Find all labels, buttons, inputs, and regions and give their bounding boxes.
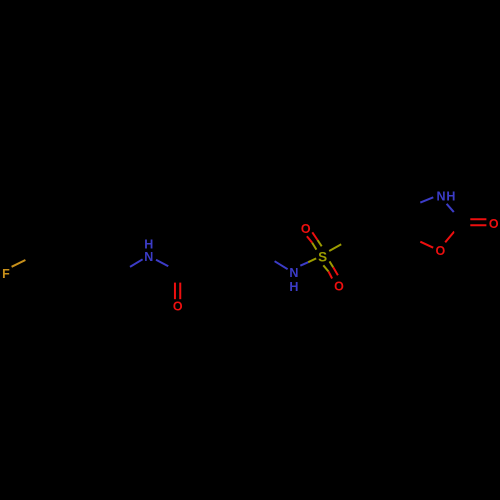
bond C2-O black half <box>455 223 463 233</box>
right benzene ring (benzoxazolone benzo ring, black) <box>351 191 408 257</box>
bond C7a-O black half <box>409 240 420 244</box>
svg-text:O: O <box>436 244 446 258</box>
propyl chain bonds black <box>178 256 207 273</box>
bond N-C3a blue half <box>420 197 433 202</box>
S=O bottom double bond olive halves <box>323 265 328 271</box>
svg-text:O: O <box>173 300 183 314</box>
svg-text:N: N <box>144 250 153 264</box>
bond N-C blue half (sulfonamide N to chain) <box>275 261 288 269</box>
bond C6-S black half <box>341 240 351 244</box>
svg-text:S: S <box>318 249 327 264</box>
S=O top double bond red halves <box>312 232 317 240</box>
C2=O exocyclic double bond black halves <box>464 218 472 220</box>
svg-text:N: N <box>289 266 298 280</box>
svg-text:O: O <box>489 217 499 231</box>
bond O-C2 red half (ring O) <box>445 232 454 243</box>
svg-text:O: O <box>301 222 311 236</box>
bond C2-N black half <box>454 212 463 222</box>
svg-text:H: H <box>289 280 298 294</box>
bond C(=O)-N black half <box>168 267 178 273</box>
bond O-C7a red half <box>420 242 433 248</box>
svg-text:N: N <box>436 190 445 204</box>
bond N-C(=O) blue half <box>156 260 168 267</box>
bond N-CH2 blue half <box>130 259 143 267</box>
S=O top double bond olive halves <box>318 240 322 246</box>
left benzene ring (3-fluorophenyl, carbon bonds, black) <box>34 207 91 273</box>
svg-text:H: H <box>446 190 455 204</box>
wire bond C5-F black half <box>25 257 34 262</box>
bond N-C2 blue half <box>447 204 454 213</box>
bond S-C6 olive half <box>329 244 341 251</box>
svg-text:F: F <box>2 267 10 281</box>
bond C3a-N black half <box>409 203 420 207</box>
carbonyl C=O double bond red halves <box>174 283 176 300</box>
C2=O exocyclic double bond red halves <box>470 218 486 220</box>
bond F-C5 gold half <box>12 260 26 267</box>
bond S-N olive half <box>308 258 316 262</box>
S=O bottom double bond red halves <box>329 272 333 279</box>
bond N-S blue half <box>300 262 308 266</box>
carbonyl C=O double bond black halves <box>174 274 176 284</box>
svg-text:O: O <box>334 280 344 294</box>
bond CH2-N black half <box>120 267 130 273</box>
bond ring-CH2 black <box>91 257 120 273</box>
